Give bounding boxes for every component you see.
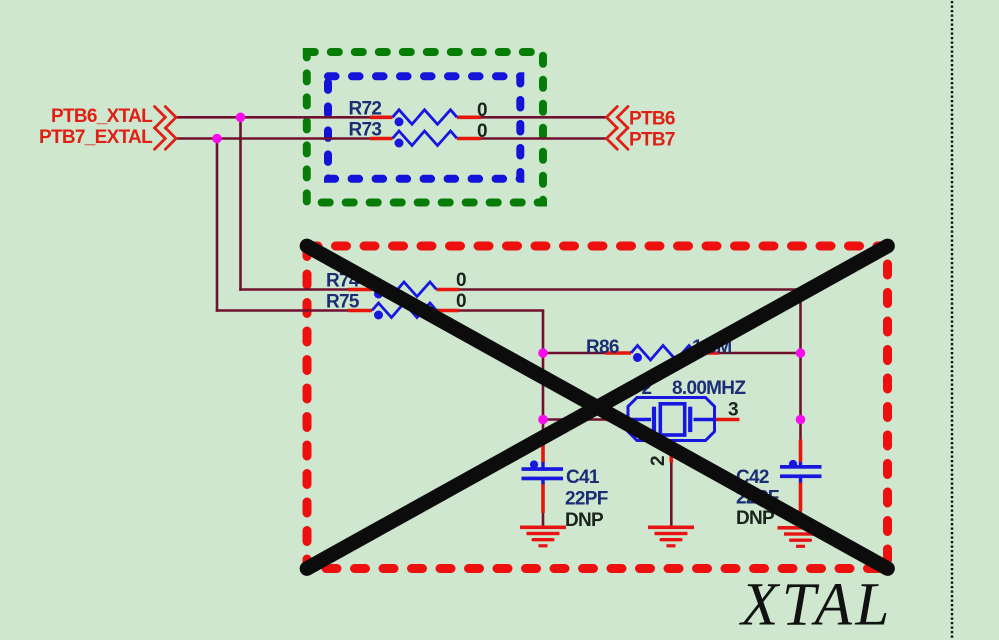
svg-text:0: 0 — [477, 100, 487, 121]
svg-text:0: 0 — [477, 121, 487, 142]
svg-text:R72: R72 — [349, 98, 382, 119]
svg-text:PTB7_EXTAL: PTB7_EXTAL — [39, 127, 153, 148]
svg-text:22PF: 22PF — [565, 489, 608, 510]
svg-text:DNP: DNP — [565, 510, 604, 531]
svg-text:2: 2 — [648, 456, 669, 466]
svg-text:0: 0 — [456, 291, 466, 312]
svg-text:0: 0 — [456, 270, 466, 291]
svg-text:R86: R86 — [586, 337, 619, 358]
svg-text:PTB6: PTB6 — [629, 109, 675, 130]
svg-text:8.00MHZ: 8.00MHZ — [672, 378, 746, 399]
svg-text:R73: R73 — [349, 120, 382, 141]
svg-text:3: 3 — [728, 400, 738, 421]
svg-text:XTAL: XTAL — [738, 572, 893, 639]
svg-text:PTB6_XTAL: PTB6_XTAL — [51, 106, 153, 127]
svg-text:R75: R75 — [326, 292, 360, 313]
svg-text:PTB7: PTB7 — [629, 130, 675, 151]
svg-text:C41: C41 — [566, 467, 600, 488]
